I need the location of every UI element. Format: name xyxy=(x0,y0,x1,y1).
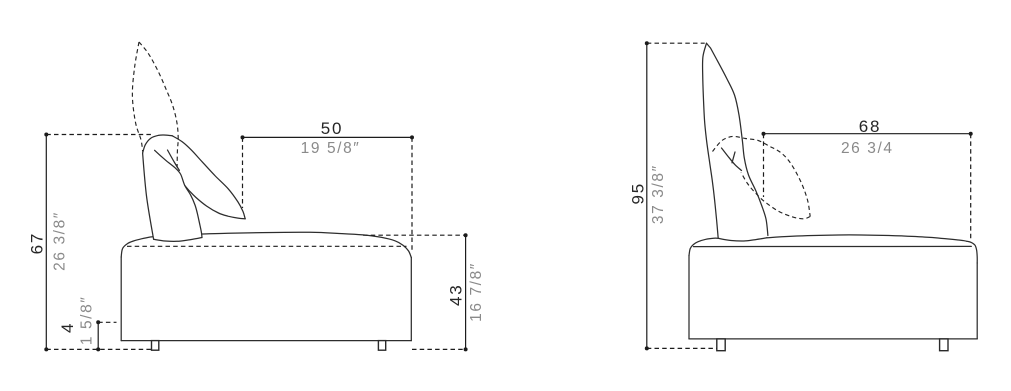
svg-text:37 3/8″: 37 3/8″ xyxy=(650,164,667,224)
svg-text:16 7/8″: 16 7/8″ xyxy=(468,262,485,322)
svg-text:19 5/8″: 19 5/8″ xyxy=(301,140,361,157)
svg-text:67: 67 xyxy=(28,232,47,255)
svg-text:1 5/8″: 1 5/8″ xyxy=(78,296,95,346)
svg-text:26 3/8″: 26 3/8″ xyxy=(52,211,69,271)
svg-text:68: 68 xyxy=(859,117,882,136)
svg-text:4: 4 xyxy=(58,322,77,333)
svg-text:95: 95 xyxy=(628,182,647,205)
svg-text:26 3/4: 26 3/4 xyxy=(841,140,894,157)
svg-text:43: 43 xyxy=(446,283,465,306)
svg-text:50: 50 xyxy=(321,119,344,138)
